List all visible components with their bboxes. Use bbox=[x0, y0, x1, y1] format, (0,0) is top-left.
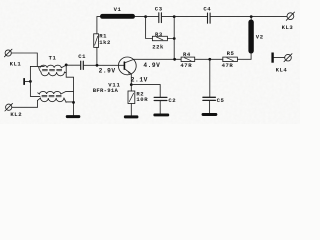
svg-text:KL2: KL2 bbox=[10, 111, 22, 118]
capacitor C1 bbox=[81, 61, 84, 69]
node V1/C3/R3 bbox=[144, 15, 147, 18]
wire R4 to collector bbox=[134, 58, 181, 60]
wire emitter down bbox=[130, 74, 132, 85]
wire R1 to base bbox=[96, 47, 98, 65]
inductor V2 bbox=[248, 20, 253, 54]
connector KL4 bbox=[284, 54, 292, 62]
svg-text:BFR-91A: BFR-91A bbox=[93, 87, 119, 94]
wire node to C1 bbox=[66, 64, 80, 66]
svg-text:47R: 47R bbox=[180, 62, 192, 69]
svg-text:V1: V1 bbox=[114, 6, 122, 13]
transformer T1 lower winding bbox=[40, 91, 64, 101]
wire upper-left stub bbox=[30, 65, 44, 67]
node base/R1 bbox=[96, 64, 99, 67]
wire KL1 to T1 bbox=[11, 53, 37, 66]
svg-text:4.9V: 4.9V bbox=[143, 62, 160, 69]
wire C3 rail bbox=[146, 16, 159, 18]
wire bar to node bbox=[25, 80, 30, 82]
svg-text:V2: V2 bbox=[256, 34, 264, 41]
ground under C2 bbox=[153, 114, 169, 117]
resistor R1 bbox=[94, 34, 99, 48]
svg-text:1k2: 1k2 bbox=[99, 39, 111, 46]
resistor R3 bbox=[152, 36, 167, 40]
connector KL3 bbox=[286, 12, 294, 20]
svg-text:C2: C2 bbox=[168, 97, 176, 104]
resistor R2 bbox=[128, 85, 135, 104]
ground under C5 bbox=[202, 113, 218, 116]
transformer T1 upper winding bbox=[39, 65, 65, 76]
wire T1 upper right to node bbox=[61, 65, 66, 73]
wire V1 left to R1 bbox=[97, 17, 100, 34]
wire KL2 riser join bbox=[38, 93, 41, 101]
capacitor C2 bbox=[154, 97, 167, 100]
svg-text:KL3: KL3 bbox=[282, 24, 294, 31]
resistor R5 bbox=[223, 57, 238, 61]
svg-text:2.9V: 2.9V bbox=[99, 68, 116, 75]
wire emitter to C2 bbox=[131, 85, 160, 97]
wire left vertical of T1 bbox=[30, 66, 40, 96]
svg-text:C3: C3 bbox=[155, 5, 163, 12]
svg-text:C1: C1 bbox=[78, 53, 86, 60]
wire R2 to ground bbox=[130, 104, 132, 116]
wire C2 to ground bbox=[159, 101, 161, 114]
svg-text:R3: R3 bbox=[155, 31, 163, 38]
node collector bbox=[173, 58, 176, 61]
wire R5 to node C5 bbox=[195, 58, 223, 60]
node C5 tap bbox=[208, 58, 211, 61]
svg-text:C4: C4 bbox=[203, 5, 211, 12]
wire C3 to node B bbox=[162, 16, 174, 18]
capacitor C4 bbox=[208, 13, 211, 23]
connector KL2 bbox=[5, 103, 13, 111]
svg-text:22k: 22k bbox=[152, 44, 164, 51]
inductor V1 bbox=[100, 14, 135, 19]
wire KL4 bbox=[274, 57, 285, 59]
resistor R4 bbox=[181, 57, 195, 61]
wire T1 lower bottom-right stub bbox=[64, 98, 74, 102]
chassis bar (shield tab) bbox=[23, 78, 25, 85]
capacitor C3 bbox=[159, 13, 162, 23]
capacitor C5 bbox=[203, 97, 216, 100]
svg-text:KL1: KL1 bbox=[10, 61, 22, 68]
svg-text:10R: 10R bbox=[136, 96, 148, 103]
node R3/collector line bbox=[173, 37, 176, 40]
ground under T1 bbox=[66, 115, 81, 118]
node emitter bbox=[130, 83, 133, 86]
wire T1 right vertical bbox=[66, 65, 73, 115]
svg-text:T1: T1 bbox=[49, 54, 57, 61]
wire C1 to base node bbox=[84, 64, 124, 66]
svg-text:R5: R5 bbox=[227, 50, 235, 57]
wire node B vertical bbox=[173, 17, 175, 60]
wire C5 from node bbox=[209, 59, 211, 97]
transistor V11 bbox=[118, 57, 136, 75]
wire V2 bottom to R5 bbox=[237, 54, 251, 60]
svg-text:2.1V: 2.1V bbox=[131, 77, 148, 84]
wire C4 to KL3 bbox=[211, 16, 287, 18]
svg-text:C5: C5 bbox=[217, 97, 225, 104]
wire C5 to ground bbox=[209, 101, 211, 113]
node T1 output bbox=[65, 64, 68, 67]
connector KL1 bbox=[4, 49, 12, 57]
connector KL4 bar bbox=[271, 53, 273, 63]
wire to C4 bbox=[174, 16, 207, 18]
svg-text:KL4: KL4 bbox=[276, 67, 288, 74]
node junction (shield) bbox=[29, 80, 32, 83]
node B top rail bbox=[173, 15, 176, 18]
wire KL2 to T1 bbox=[12, 100, 38, 107]
wire down to R3 bbox=[146, 17, 153, 39]
node T1 ground bbox=[72, 101, 75, 104]
wire V2 top bbox=[250, 17, 252, 20]
wire T1 lower top-right stub bbox=[61, 91, 74, 94]
wire R3 right bbox=[167, 38, 174, 40]
node V2 tap bbox=[250, 15, 253, 18]
svg-text:47R: 47R bbox=[222, 62, 234, 69]
svg-text:R4: R4 bbox=[183, 51, 191, 58]
ground under R2 bbox=[124, 115, 138, 118]
wire V1 right bbox=[135, 16, 146, 18]
